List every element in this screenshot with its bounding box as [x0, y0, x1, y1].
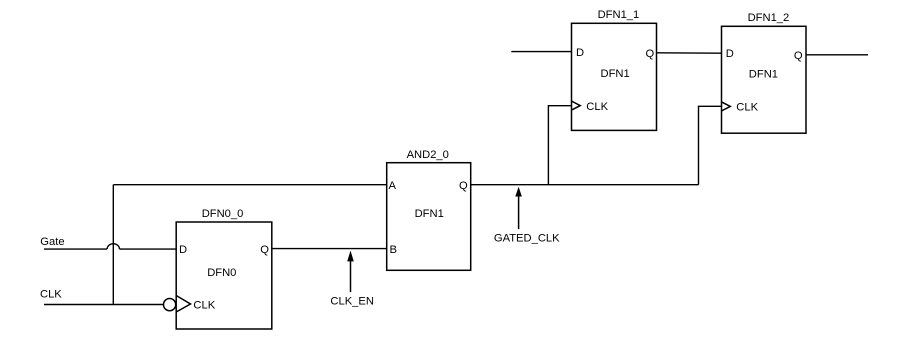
wire CLK net horizontal [44, 304, 163, 306]
arrow GATED_CLK [515, 187, 522, 229]
svg-text:DFN1_1: DFN1_1 [598, 9, 640, 21]
svg-text:DFN1: DFN1 [415, 208, 444, 220]
inversion bubble DFN0_0 CLK [164, 299, 176, 311]
svg-text:D: D [179, 244, 187, 256]
wire DFN0_0 Q to AND2_0 B [272, 248, 387, 250]
svg-text:CLK: CLK [736, 102, 758, 114]
svg-text:CLK: CLK [193, 299, 215, 311]
svg-text:CLK_EN: CLK_EN [330, 296, 374, 308]
wire CLK vertical branch [112, 185, 114, 305]
svg-text:AND2_0: AND2_0 [407, 149, 449, 161]
wire riser to DFN1_1 CLK [548, 106, 571, 185]
svg-text:Q: Q [260, 244, 269, 256]
wire hop over CLK vertical [107, 244, 119, 249]
flip-flop DFN0_0 body [176, 222, 272, 329]
wire DFN1_1 Q to DFN1_2 D [657, 52, 722, 54]
wire DFN1_2 Q output stub [806, 54, 868, 56]
clock triangle DFN1_1 [572, 101, 581, 110]
svg-text:Q: Q [459, 180, 468, 192]
clock triangle DFN1_2 [722, 102, 731, 111]
arrow CLK_EN [347, 251, 354, 293]
flip-flop DFN1_1 body [572, 23, 657, 130]
svg-text:Gate: Gate [40, 236, 64, 248]
wire CLK to AND2_0 A pin [113, 184, 386, 186]
svg-text:D: D [726, 48, 734, 60]
wire Gate net right segment to D pin [120, 248, 177, 250]
svg-text:D: D [576, 47, 584, 59]
svg-text:Q: Q [794, 50, 803, 62]
svg-text:CLK: CLK [586, 101, 608, 113]
svg-text:DFN1: DFN1 [601, 68, 630, 80]
and-gate AND2_0 body [387, 163, 471, 271]
svg-text:DFN0: DFN0 [207, 267, 236, 279]
svg-text:DFN0_0: DFN0_0 [202, 208, 244, 220]
svg-text:Q: Q [646, 48, 655, 60]
wire riser to DFN1_2 CLK [699, 106, 722, 184]
svg-text:CLK: CLK [40, 289, 62, 301]
svg-text:A: A [389, 180, 397, 192]
flip-flop DFN1_2 body [722, 26, 807, 133]
svg-text:B: B [390, 244, 397, 256]
clock triangle DFN0_0 [176, 296, 190, 313]
svg-text:DFN1: DFN1 [749, 68, 778, 80]
svg-text:GATED_CLK: GATED_CLK [494, 232, 560, 244]
svg-text:DFN1_2: DFN1_2 [748, 12, 790, 24]
wire GATED_CLK net from AND2_0 Q [471, 184, 699, 186]
wire DFN1_1 D input stub [511, 51, 571, 53]
wire Gate net left segment [44, 248, 107, 250]
